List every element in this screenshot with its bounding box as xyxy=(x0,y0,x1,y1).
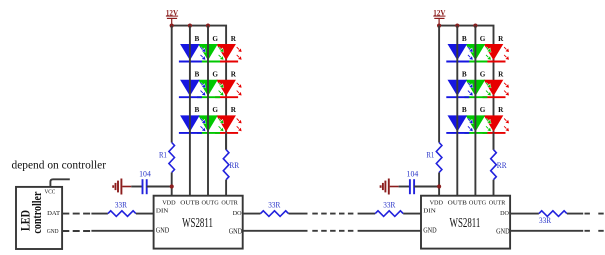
IC U2 WS2811 box xyxy=(421,196,510,249)
svg-text:RR: RR xyxy=(229,161,239,170)
power port 12V (net 12V) 1 xyxy=(166,7,179,25)
svg-text:OUTG: OUTG xyxy=(201,199,219,206)
svg-text:WS2811: WS2811 xyxy=(450,215,481,230)
junction dot bus/B column 1 xyxy=(188,24,192,28)
junction dot bus/B column 2 xyxy=(455,24,459,28)
svg-text:OUTG: OUTG xyxy=(469,199,487,206)
LED red D12R xyxy=(215,80,242,98)
LED controller box xyxy=(16,187,62,249)
resistor 33R input U2 xyxy=(375,201,403,217)
svg-text:VDD: VDD xyxy=(430,199,444,206)
wire ground to capacitor 1 xyxy=(122,186,142,188)
svg-text:R: R xyxy=(498,35,504,43)
svg-text:B: B xyxy=(195,106,200,114)
svg-text:GND: GND xyxy=(423,228,437,235)
svg-text:DIN: DIN xyxy=(156,208,169,215)
wire VDD column 2 xyxy=(438,26,440,143)
resistor RR 2 xyxy=(491,150,507,180)
svg-text:DO: DO xyxy=(500,210,509,217)
resistor 33R output U1 xyxy=(261,201,289,217)
wire DO U1 to resistor xyxy=(243,213,261,215)
svg-text:G: G xyxy=(480,106,486,114)
wire GND solid to U1 xyxy=(91,230,153,232)
wire data dashed to edge xyxy=(585,213,605,215)
svg-text:R: R xyxy=(498,106,504,114)
resistor 33R input U1 xyxy=(108,201,136,217)
svg-text:DO: DO xyxy=(233,210,242,217)
LED blue D13B xyxy=(179,115,206,132)
wire R1 to VDD pin 1 xyxy=(171,173,173,196)
wire GND U1 to dashed xyxy=(243,230,308,232)
svg-text:GND: GND xyxy=(496,228,510,235)
wire GND dashed to edge xyxy=(585,230,605,232)
svg-text:G: G xyxy=(480,71,486,79)
LED red D22R xyxy=(483,80,510,98)
wire G column 2 xyxy=(474,26,476,196)
LED green D22G xyxy=(464,80,491,98)
wire GND dashed from controller xyxy=(62,230,90,232)
wire capacitor to VDD node 1 xyxy=(147,186,172,188)
wire GND dashed interstage xyxy=(312,230,353,232)
wire DO U2 to resistor xyxy=(510,213,539,215)
capacitor 104 2 xyxy=(407,169,419,194)
LED green D13G xyxy=(197,115,224,132)
capacitor 104 1 xyxy=(139,169,151,194)
junction dot bus/G column 1 xyxy=(206,24,210,28)
svg-text:R: R xyxy=(231,71,237,79)
svg-text:G: G xyxy=(480,35,486,43)
svg-text:R: R xyxy=(231,35,237,43)
wire RR to OUTR pin 1 xyxy=(225,180,227,196)
svg-text:G: G xyxy=(212,106,218,114)
wire RR to OUTR pin 2 xyxy=(493,180,495,196)
LED green D12G xyxy=(197,80,224,98)
svg-text:104: 104 xyxy=(139,169,151,178)
svg-text:104: 104 xyxy=(407,169,419,178)
LED green D11G xyxy=(197,44,224,62)
svg-text:VDD: VDD xyxy=(162,199,176,206)
svg-text:GND: GND xyxy=(47,228,59,235)
svg-text:GND: GND xyxy=(156,228,170,235)
wire VDD column 1 xyxy=(171,26,173,143)
LED blue D12B xyxy=(179,80,206,98)
LED blue D22B xyxy=(446,80,473,98)
junction dot at 12V stub 2 xyxy=(437,24,441,28)
wire R column upper 1 xyxy=(225,133,227,150)
wire data solid to resistor U2 xyxy=(358,213,376,215)
wire GND solid to U2 xyxy=(358,230,422,232)
svg-text:OUTB: OUTB xyxy=(448,199,468,206)
resistor R1 1 xyxy=(159,143,175,173)
wire VCC stub xyxy=(50,179,69,187)
wire R1 to VDD pin 2 xyxy=(438,173,440,196)
LED blue D23B xyxy=(446,115,473,132)
junction dot VDD/cap node 2 xyxy=(437,184,441,188)
resistor 33R output U2 xyxy=(539,211,567,225)
svg-text:33R: 33R xyxy=(539,216,551,225)
LED red D13R xyxy=(215,115,242,132)
svg-text:B: B xyxy=(195,71,200,79)
svg-text:DAT: DAT xyxy=(47,210,60,217)
wire B column 2 xyxy=(456,26,458,196)
svg-text:controller: controller xyxy=(30,191,44,233)
svg-text:OUTB: OUTB xyxy=(180,199,200,206)
wire resistor to DIN U1 xyxy=(136,213,154,215)
wire after output resistor xyxy=(567,213,583,215)
junction dot at 12V stub 1 xyxy=(170,24,174,28)
svg-text:33R: 33R xyxy=(268,201,280,210)
wire ground to capacitor 2 xyxy=(390,186,410,188)
svg-text:B: B xyxy=(462,106,467,114)
svg-text:B: B xyxy=(462,71,467,79)
svg-text:DIN: DIN xyxy=(423,208,436,215)
LED green D21G xyxy=(464,44,491,62)
svg-text:RR: RR xyxy=(497,161,507,170)
svg-text:G: G xyxy=(212,71,218,79)
svg-text:R: R xyxy=(498,71,504,79)
svg-text:33R: 33R xyxy=(115,201,127,210)
junction dot VDD/cap node 1 xyxy=(170,184,174,188)
wire R column upper 2 xyxy=(493,133,495,150)
svg-text:33R: 33R xyxy=(383,201,395,210)
wire 12V bus 2 xyxy=(439,26,493,150)
svg-text:B: B xyxy=(195,35,200,43)
LED blue D11B xyxy=(179,44,206,62)
IC U1 WS2811 box xyxy=(154,196,243,249)
resistor R1 2 xyxy=(426,143,442,173)
wire GND U2 to edge solid xyxy=(510,230,583,232)
wire capacitor to VDD node 2 xyxy=(414,186,439,188)
wire DAT dashed from controller xyxy=(62,213,90,215)
ground symbol 2 xyxy=(381,179,389,195)
svg-text:R: R xyxy=(231,106,237,114)
wire G column 1 xyxy=(207,26,209,196)
svg-text:depend on controller: depend on controller xyxy=(12,159,107,171)
svg-text:OUTR: OUTR xyxy=(489,199,506,206)
wire B column 1 xyxy=(189,26,191,196)
power port 12V (net 12V) 2 xyxy=(433,7,446,25)
wire resistor to DIN U2 xyxy=(403,213,421,215)
LED red D21R xyxy=(483,44,510,62)
svg-text:B: B xyxy=(462,35,467,43)
svg-text:OUTR: OUTR xyxy=(221,199,238,206)
wire data dashed interstage xyxy=(312,213,353,215)
svg-text:WS2811: WS2811 xyxy=(182,215,213,230)
junction dot bus/G column 2 xyxy=(473,24,477,28)
svg-text:G: G xyxy=(212,35,218,43)
LED green D23G xyxy=(464,115,491,132)
svg-text:R1: R1 xyxy=(159,150,167,159)
LED blue D21B xyxy=(446,44,473,62)
LED red D23R xyxy=(483,115,510,132)
wire after resistor solid xyxy=(289,213,308,215)
resistor RR 1 xyxy=(223,150,239,180)
wire DAT solid to resistor xyxy=(91,213,108,215)
svg-text:GND: GND xyxy=(229,228,243,235)
svg-text:VCC: VCC xyxy=(44,189,55,196)
wire 12V bus 1 xyxy=(172,26,226,150)
svg-text:R1: R1 xyxy=(426,150,434,159)
LED red D11R xyxy=(215,44,242,62)
ground symbol 1 xyxy=(113,179,121,195)
